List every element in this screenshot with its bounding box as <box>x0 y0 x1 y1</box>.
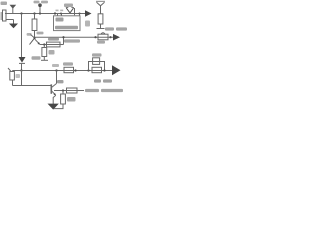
wire divider top <box>100 5 102 14</box>
wire vertical left column <box>21 14 23 58</box>
parallel branch <box>89 62 105 71</box>
label below wire C <box>64 39 80 42</box>
wire R8 to ground <box>54 104 63 109</box>
capacitor C1 left <box>12 71 14 72</box>
resistor R8 vertical <box>62 91 64 95</box>
wire D to C riser <box>63 37 65 44</box>
resistor R2 vertical on x34 <box>34 14 36 20</box>
node dot A5 <box>78 12 80 14</box>
wire E y=70 <box>13 70 113 72</box>
node E4 <box>87 69 89 71</box>
resistor R divider <box>98 14 103 24</box>
node C2 <box>109 36 111 38</box>
node E5 <box>103 69 105 71</box>
transistor Q1 <box>31 35 35 38</box>
IC box U1 <box>54 16 81 31</box>
node dot A2 <box>39 12 41 14</box>
net arrow wire C end <box>113 34 120 41</box>
power flag arrow (down) at input <box>10 5 17 9</box>
wire J1 pin2 to ground <box>13 20 15 24</box>
wire E2 down to Q2 <box>56 71 58 84</box>
wire Q2 out y=90.5 <box>54 90 84 92</box>
ground (input) <box>9 24 18 29</box>
node E1 <box>20 69 22 71</box>
power flag chevron top right <box>97 2 105 6</box>
node dot A1 <box>20 12 22 14</box>
wire C y=37 <box>35 36 114 38</box>
pin stub box right <box>61 14 63 17</box>
connector J1 <box>3 10 7 21</box>
wire E1 down <box>21 71 23 86</box>
node Q1 base <box>33 37 35 39</box>
resistor R6 on wire E <box>92 67 102 72</box>
label under arrow <box>94 79 101 82</box>
label net right <box>105 27 114 30</box>
node dot A6 <box>33 12 35 14</box>
wire base Q2 <box>22 85 51 87</box>
node E2 <box>55 69 57 71</box>
diode D1 on rail A <box>66 8 73 13</box>
resistor R7 on out wire <box>67 88 78 93</box>
label net out long <box>85 89 99 92</box>
wire main rail A y=13 <box>5 13 85 15</box>
pin stub box left <box>57 14 59 17</box>
node C1 <box>94 36 96 38</box>
transistor Q2 <box>50 84 52 94</box>
node dot A3 <box>54 12 56 14</box>
capacitor C2 top branch <box>93 58 100 65</box>
diode D2 left column <box>19 57 26 63</box>
pin number text <box>56 10 59 12</box>
node D1 <box>43 43 45 45</box>
power flag +V dot <box>39 6 41 14</box>
resistor R4 below wire D <box>43 45 45 48</box>
node dot A4 <box>60 12 62 14</box>
resistor R5 on wire E <box>64 67 74 72</box>
node B1 <box>62 89 64 91</box>
resistor R3 on wire D <box>47 42 61 47</box>
node E3 <box>74 69 76 71</box>
wire D y=44 <box>40 44 64 46</box>
net arrow wire E end <box>112 65 121 75</box>
net arrow rail A end <box>85 10 92 17</box>
component F1 on wire C <box>98 34 108 40</box>
wire divider bottom <box>100 24 102 29</box>
ground Q2 emitter <box>48 104 59 110</box>
